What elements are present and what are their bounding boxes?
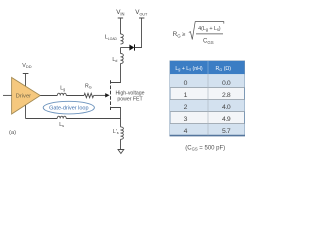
svg-text:4.0: 4.0 <box>222 104 231 111</box>
VOUT supply T-bar <box>139 17 144 19</box>
svg-text:(a): (a) <box>9 130 16 136</box>
table row 3 shaded <box>170 100 245 112</box>
wire junction to diode <box>121 47 130 49</box>
svg-text:Lg: Lg <box>60 85 65 91</box>
wire diode to VOUT <box>135 18 142 48</box>
svg-text:RG (Ω): RG (Ω) <box>216 66 232 72</box>
svg-text:High-voltage: High-voltage <box>115 90 144 96</box>
svg-text:Ls: Ls <box>59 122 64 128</box>
FET drain lead wire <box>111 64 121 83</box>
table bottom border <box>170 135 246 137</box>
inductor L's <box>121 127 124 139</box>
svg-text:0.0: 0.0 <box>222 80 231 87</box>
table body values column 1 <box>184 80 188 135</box>
diode D1 <box>129 45 134 51</box>
svg-text:Ld: Ld <box>112 57 117 63</box>
svg-text:4.9: 4.9 <box>222 116 231 123</box>
return riser wire to driver <box>25 105 27 118</box>
svg-text:2: 2 <box>184 104 188 111</box>
svg-text:3: 3 <box>184 116 188 123</box>
driver input wire <box>3 94 12 96</box>
formula radical sign <box>189 22 224 40</box>
formula fraction bar <box>196 33 223 35</box>
svg-text:VDD: VDD <box>22 63 31 69</box>
svg-text:(CGS = 500 pF): (CGS = 500 pF) <box>185 145 225 151</box>
ground <box>118 150 124 154</box>
svg-text:4(Lg + Ls): 4(Lg + Ls) <box>198 26 221 32</box>
wire VDD to driver <box>25 74 27 87</box>
table row separators <box>170 88 245 124</box>
diode cathode bar <box>134 44 136 50</box>
resistor RG <box>84 93 94 97</box>
svg-text:1: 1 <box>184 92 188 99</box>
table row 5 shaded <box>170 124 245 136</box>
table outer background <box>170 61 245 135</box>
inductor Ld <box>121 53 124 63</box>
bottom rail wire right <box>66 118 120 120</box>
svg-text:5.7: 5.7 <box>222 128 231 135</box>
table column divider <box>207 61 209 135</box>
svg-text:2.8: 2.8 <box>222 92 231 99</box>
svg-text:power FET: power FET <box>117 97 143 103</box>
svg-text:RG: RG <box>85 84 92 90</box>
table header row <box>170 61 245 74</box>
svg-text:RG: RG <box>173 31 182 38</box>
VIN supply T-bar <box>118 17 123 19</box>
svg-text:0: 0 <box>184 80 188 87</box>
FET Q1 channel bar <box>110 80 112 110</box>
svg-text:L′s: L′s <box>113 129 119 135</box>
table body values column 2 <box>222 80 231 135</box>
inductor LLOAD <box>121 34 124 44</box>
wire L's to ground <box>120 139 122 149</box>
table row 1 shaded <box>170 74 245 87</box>
svg-text:LLOAD: LLOAD <box>105 35 118 41</box>
bottom rail wire left <box>26 118 58 120</box>
wire Lg to RG <box>66 95 84 97</box>
inductor Ls <box>57 116 66 118</box>
svg-text:CGS: CGS <box>203 39 214 45</box>
VDD supply T-bar <box>23 73 29 75</box>
gate-driver loop ellipse <box>43 101 94 114</box>
svg-text:Driver: Driver <box>16 94 32 100</box>
svg-text:≥: ≥ <box>182 32 185 38</box>
svg-text:Gate-driver loop: Gate-driver loop <box>49 106 88 112</box>
wire RG to gate <box>94 94 106 96</box>
svg-text:VOUT: VOUT <box>135 9 148 16</box>
gate arrowhead <box>105 93 109 97</box>
wire driver output to Lg <box>40 95 57 97</box>
FET source lead wire <box>111 108 121 127</box>
wire VIN to LLOAD <box>120 18 122 34</box>
driver U1 triangle <box>12 78 41 115</box>
svg-text:Lg + Ls (nH): Lg + Ls (nH) <box>175 66 203 72</box>
inductor Lg <box>57 93 66 95</box>
wire Ld to junction <box>120 48 122 54</box>
svg-text:VIN: VIN <box>116 9 124 16</box>
svg-text:4: 4 <box>184 128 188 135</box>
